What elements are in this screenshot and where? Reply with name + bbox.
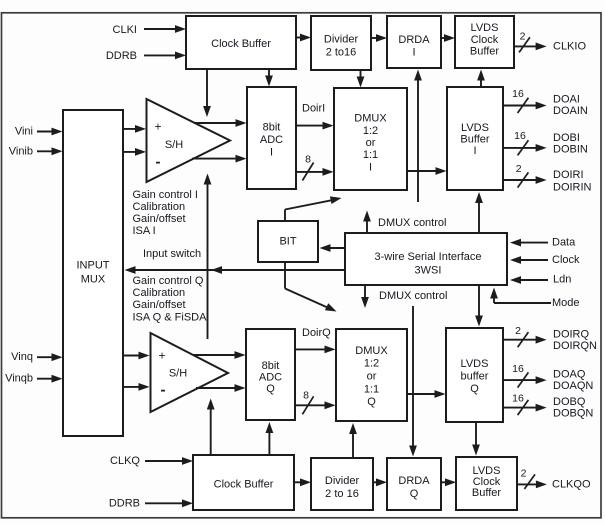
svg-text:CLKQ: CLKQ: [110, 455, 140, 467]
svg-text:ADC: ADC: [259, 372, 282, 384]
svg-text:DOIRIN: DOIRIN: [553, 181, 592, 193]
svg-text:1:1: 1:1: [363, 149, 378, 161]
svg-text:DRDA: DRDA: [398, 34, 430, 46]
svg-text:Calibration: Calibration: [133, 201, 186, 213]
svg-text:or: or: [367, 371, 377, 383]
svg-text:I: I: [270, 146, 273, 158]
svg-text:Buffer: Buffer: [460, 134, 489, 146]
svg-text:3WSI: 3WSI: [415, 265, 442, 277]
svg-text:DOBIN: DOBIN: [553, 143, 588, 155]
svg-text:Buffer: Buffer: [470, 45, 499, 57]
svg-text:I: I: [369, 161, 372, 173]
svg-text:2: 2: [521, 468, 527, 480]
svg-text:Vinq: Vinq: [11, 351, 33, 363]
svg-text:DOIRQN: DOIRQN: [553, 340, 597, 352]
svg-text:Mode: Mode: [552, 297, 580, 309]
svg-text:DOBI: DOBI: [553, 132, 580, 144]
svg-text:2: 2: [515, 325, 521, 337]
svg-text:DOAIN: DOAIN: [553, 105, 588, 117]
svg-text:Clock: Clock: [552, 254, 580, 266]
svg-text:16: 16: [512, 88, 524, 100]
svg-text:Q: Q: [410, 488, 419, 500]
svg-text:I: I: [412, 46, 415, 58]
svg-text:ISA Q & FiSDA: ISA Q & FiSDA: [133, 311, 208, 323]
svg-text:Gain control Q: Gain control Q: [133, 275, 204, 287]
svg-text:Q: Q: [470, 383, 479, 395]
svg-text:MUX: MUX: [81, 273, 106, 285]
svg-text:DDRB: DDRB: [109, 498, 140, 510]
svg-text:8: 8: [303, 390, 309, 402]
svg-text:ISA I: ISA I: [133, 225, 156, 237]
svg-text:S/H: S/H: [169, 368, 187, 380]
svg-text:ADC: ADC: [260, 134, 283, 146]
svg-text:DOAQ: DOAQ: [553, 368, 586, 380]
svg-text:16: 16: [512, 363, 524, 375]
svg-text:8bit: 8bit: [263, 122, 281, 134]
svg-text:Ldn: Ldn: [553, 274, 571, 286]
svg-text:-: -: [161, 382, 166, 399]
svg-text:BIT: BIT: [279, 236, 296, 248]
svg-text:2: 2: [516, 163, 522, 175]
svg-text:Clock: Clock: [471, 34, 499, 46]
svg-text:Vini: Vini: [15, 126, 33, 138]
svg-text:CLKQO: CLKQO: [552, 478, 591, 490]
svg-text:DOIRQ: DOIRQ: [553, 328, 590, 340]
svg-text:DoirQ: DoirQ: [302, 327, 331, 339]
svg-text:Divider: Divider: [325, 475, 360, 487]
svg-text:buffer: buffer: [461, 371, 489, 383]
svg-text:1:1: 1:1: [364, 384, 379, 396]
svg-text:1:2: 1:2: [364, 358, 379, 370]
svg-text:Clock Buffer: Clock Buffer: [211, 38, 271, 50]
svg-text:8bit: 8bit: [262, 360, 280, 372]
svg-text:DOIRI: DOIRI: [553, 169, 584, 181]
svg-text:Vinqb: Vinqb: [5, 373, 33, 385]
svg-text:or: or: [366, 137, 376, 149]
svg-text:DDRB: DDRB: [106, 50, 137, 62]
svg-text:Buffer: Buffer: [472, 487, 501, 499]
svg-text:DMUX: DMUX: [354, 113, 387, 125]
svg-text:CLKI: CLKI: [113, 24, 137, 36]
svg-text:3-wire Serial Interface: 3-wire Serial Interface: [375, 251, 482, 263]
svg-text:Q: Q: [266, 383, 275, 395]
svg-text:2 to16: 2 to16: [326, 47, 357, 59]
svg-text:DOBQN: DOBQN: [553, 407, 593, 419]
svg-text:DoirI: DoirI: [302, 103, 325, 115]
svg-text:LVDS: LVDS: [471, 22, 499, 34]
svg-text:Q: Q: [367, 396, 376, 408]
svg-text:Gain control I: Gain control I: [133, 189, 198, 201]
svg-text:DRDA: DRDA: [398, 475, 430, 487]
svg-text:16: 16: [512, 393, 524, 405]
svg-text:Calibration: Calibration: [133, 287, 186, 299]
svg-text:DMUX control: DMUX control: [378, 217, 446, 229]
svg-text:LVDS: LVDS: [461, 122, 489, 134]
svg-text:Gain/offset: Gain/offset: [133, 299, 186, 311]
svg-text:DOAQN: DOAQN: [553, 380, 593, 392]
svg-text:-: -: [156, 154, 161, 171]
svg-text:LVDS: LVDS: [461, 358, 489, 370]
svg-text:Data: Data: [552, 237, 576, 249]
svg-text:DMUX control: DMUX control: [379, 290, 447, 302]
svg-text:DOBQ: DOBQ: [553, 396, 586, 408]
svg-text:Gain/offset: Gain/offset: [133, 213, 186, 225]
svg-text:INPUT: INPUT: [77, 260, 110, 272]
svg-text:CLKIO: CLKIO: [553, 40, 586, 52]
svg-text:DOAI: DOAI: [553, 94, 580, 106]
svg-text:I: I: [473, 145, 476, 157]
svg-text:2: 2: [520, 31, 526, 43]
svg-text:+: +: [154, 120, 161, 134]
svg-text:8: 8: [305, 153, 311, 165]
svg-text:Clock Buffer: Clock Buffer: [214, 479, 274, 491]
svg-text:Vinib: Vinib: [9, 145, 33, 157]
svg-text:DMUX: DMUX: [355, 345, 388, 357]
svg-text:S/H: S/H: [165, 139, 183, 151]
svg-text:2 to 16: 2 to 16: [325, 488, 359, 500]
svg-text:16: 16: [514, 130, 526, 142]
svg-text:+: +: [158, 349, 165, 363]
svg-text:1:2: 1:2: [363, 125, 378, 137]
svg-text:Input switch: Input switch: [143, 248, 201, 260]
svg-text:Divider: Divider: [324, 34, 359, 46]
